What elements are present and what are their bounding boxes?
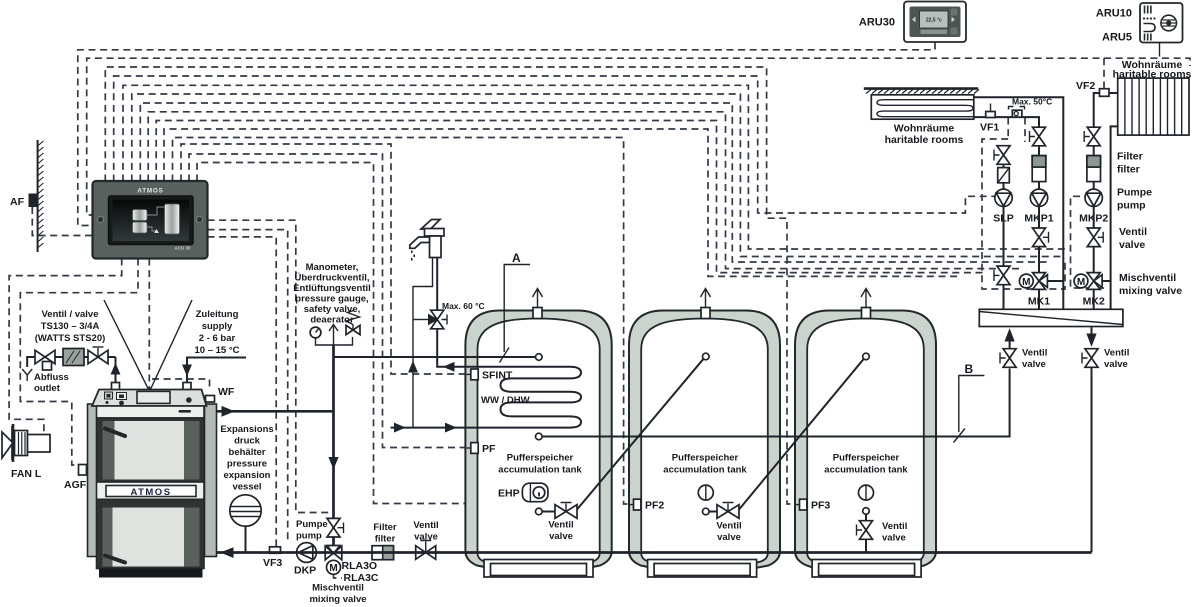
pipe to tank2 valve (709, 511, 717, 513)
pipe faucet hot (436, 258, 438, 313)
port tank1 mid w/ line to header (536, 369, 1010, 440)
marker B slash (954, 429, 966, 443)
pipe to tank1 valve (542, 511, 555, 513)
wire to WF sensor (152, 379, 210, 388)
pipe radiator supply w/ VF1 (974, 117, 1039, 127)
deaerator vent arrow (329, 325, 338, 346)
svg-text:pressure: pressure (227, 459, 267, 470)
svg-text:VF1: VF1 (980, 122, 999, 134)
svg-text:ARU5: ARU5 (1102, 32, 1132, 44)
boiler top buttons (105, 392, 113, 399)
valve tank2 bottom (717, 503, 739, 519)
arrow cold up (409, 362, 417, 372)
pump MKP1 (1030, 189, 1047, 206)
svg-text:ARU30: ARU30 (859, 17, 895, 29)
svg-text:Max. 60 °C: Max. 60 °C (442, 301, 485, 311)
svg-text:outlet: outlet (34, 383, 61, 394)
pipe MKP2 down (1093, 207, 1095, 272)
svg-text:PF2: PF2 (645, 500, 664, 512)
wire bus8 (148, 112, 1019, 269)
pump SLP (995, 189, 1012, 206)
pipe mixer riser w/ down arrow (329, 412, 338, 545)
valve below header right w/ down arrow (1082, 327, 1098, 553)
pipe SLP down (1003, 207, 1005, 310)
svg-text:Pumpe: Pumpe (1117, 187, 1152, 199)
pipe safety manifold (316, 337, 353, 345)
svg-text:AGF: AGF (64, 479, 87, 491)
sensor SFINT (467, 369, 479, 380)
pipe Zuleitung supply w/ down arrow (183, 358, 246, 384)
svg-text:accumulation tank: accumulation tank (663, 465, 747, 476)
valve tank1 bottom (555, 503, 577, 519)
svg-text:Wohnräume: Wohnräume (894, 123, 955, 135)
wire bus12 to SFINT (181, 144, 468, 374)
svg-text:ATMOS: ATMOS (137, 188, 163, 195)
wire panel-right to VF3 (208, 237, 277, 546)
svg-text:Pufferspeicher: Pufferspeicher (833, 453, 900, 464)
svg-text:Manometer,: Manometer, (306, 262, 359, 273)
pipe riser safety (332, 345, 335, 412)
wire bus3 to PF3 (105, 67, 797, 504)
sensor PF (467, 443, 479, 454)
wire bus10 (164, 129, 960, 276)
svg-text:mixing valve: mixing valve (1119, 285, 1182, 297)
sensor VF3 (270, 547, 281, 554)
wire panel-bottom to AGF (20, 259, 138, 466)
marker B bracket (959, 376, 985, 433)
pump DKP (297, 543, 317, 563)
svg-text:Zuleitung: Zuleitung (196, 309, 239, 320)
boiler upper door handle (105, 429, 125, 437)
wire bus5 to MKP2 box (123, 85, 1070, 249)
boiler base (99, 569, 203, 578)
svg-text:filter: filter (1117, 164, 1140, 176)
svg-text:AF: AF (10, 196, 25, 208)
svg-text:valve: valve (1119, 239, 1145, 251)
wire bus14 to EHP (197, 163, 521, 504)
radiator panel horizontal (871, 95, 974, 119)
port tank3 bottom circle (863, 508, 870, 515)
svg-text:expansion: expansion (224, 470, 271, 481)
svg-text:Mischventil: Mischventil (1119, 272, 1176, 284)
svg-text:ATMOS: ATMOS (130, 487, 171, 498)
svg-text:supply: supply (202, 321, 233, 332)
svg-text:M: M (329, 563, 337, 574)
valve above RLA3 (327, 518, 344, 537)
svg-text:valve: valve (414, 532, 438, 543)
svg-text:MK2: MK2 (1083, 296, 1105, 308)
boiler port left (112, 383, 120, 391)
sensor PF2 (629, 499, 641, 510)
wire bus13 to PF (189, 154, 468, 448)
boiler ATMOS band (97, 482, 205, 499)
pipe radiator return to MK1 (974, 97, 1064, 309)
pipe radiator2 return (1111, 126, 1118, 309)
sensor VF2 (1100, 89, 1110, 97)
svg-text:filter: filter (375, 534, 396, 545)
svg-text:RLA3O: RLA3O (342, 560, 378, 572)
mixing valve RLA3 (325, 546, 342, 575)
expansion vessel (230, 495, 261, 553)
svg-text:SFINT: SFINT (482, 370, 513, 382)
boiler upper door frame (97, 418, 205, 482)
valve below header left w/ up arrow (1000, 330, 1016, 368)
tank 3 base (812, 560, 921, 578)
svg-text:WF: WF (218, 386, 235, 398)
svg-text:Filter: Filter (373, 522, 397, 533)
filter MKP2 (1087, 146, 1101, 189)
marker A bracket (504, 265, 530, 353)
svg-text:10 – 15 °C: 10 – 15 °C (195, 345, 240, 356)
tank 1 top port w/ arrow (533, 289, 543, 319)
boiler top panel (92, 390, 207, 407)
svg-text:Pumpe: Pumpe (296, 519, 328, 530)
svg-text:deaerator: deaerator (310, 315, 354, 326)
wire panel-right to DKP (208, 230, 288, 540)
svg-text:pressure gauge,: pressure gauge, (295, 294, 368, 305)
funnel Abfluss (22, 369, 32, 381)
boiler display window (137, 391, 170, 403)
valve TS130 left (35, 350, 55, 370)
wire bus6 (132, 94, 1063, 257)
svg-text:Entlüftungsventil: Entlüftungsventil (293, 283, 371, 294)
room unit ARU30 (904, 2, 966, 43)
AGF sensor (79, 465, 87, 476)
pipe MKP1 down (1038, 207, 1040, 272)
boiler side panels (88, 404, 100, 557)
svg-text:Filter: Filter (1117, 151, 1143, 163)
svg-text:Ventil: Ventil (1119, 226, 1147, 238)
svg-text:Ventil: Ventil (413, 520, 438, 531)
svg-text:M: M (1077, 277, 1085, 288)
svg-text:MK1: MK1 (1028, 296, 1050, 308)
pointer V lines to boiler top (104, 300, 149, 390)
valve TS130 right (88, 347, 108, 364)
dashed box SLP MKP1 circuits (982, 139, 1065, 289)
symbol tank2 heater port (698, 485, 713, 500)
wire panel-bottom to FAN L (9, 259, 122, 435)
pump MKP2 (1085, 189, 1102, 206)
ceiling hatch (864, 89, 979, 94)
svg-text:FAN L: FAN L (11, 468, 42, 480)
pipe supply to tank1 (334, 356, 536, 358)
pipe SLP valve-check-pump (1003, 164, 1005, 189)
svg-text:PF3: PF3 (811, 500, 830, 512)
boiler lower door frame (97, 499, 205, 568)
column MKP1 valve (1030, 127, 1046, 146)
wire bus2 panel-left to VF2 (87, 58, 1104, 215)
sensor PF3 (795, 499, 807, 510)
tank 1 shell (465, 311, 611, 571)
tank 2 base (648, 560, 757, 578)
boiler port right (183, 383, 191, 391)
pipe radiator2 supply (1094, 93, 1118, 128)
wire Max50 to MK1 motor (1024, 118, 1026, 143)
wire AF sensor to panel (32, 207, 92, 236)
svg-text:mixing valve: mixing valve (309, 594, 366, 605)
svg-text:Überdruckventil,: Überdruckventil, (295, 273, 370, 284)
svg-text:valve: valve (1104, 359, 1128, 370)
tank 1 base (484, 560, 593, 578)
room unit ARU10/ARU5 (1140, 3, 1183, 43)
dashed hook RLA3 motor (334, 574, 343, 578)
svg-text:Abfluss: Abfluss (34, 372, 69, 383)
svg-text:22,5 °c: 22,5 °c (926, 18, 942, 24)
boiler top right knob (186, 397, 192, 403)
valve MKP2 lower (1087, 228, 1103, 247)
fan FAN L (2, 424, 50, 462)
svg-text:druck: druck (234, 436, 261, 447)
port tank1 bottom circle (536, 508, 543, 515)
valve MKP2 (1084, 127, 1100, 146)
boiler ATMOS plate (106, 486, 196, 497)
tank 2 top port w/ arrow (701, 289, 711, 319)
svg-text:A: A (512, 251, 521, 265)
svg-text:valve: valve (717, 532, 741, 543)
header hydraulic separator (979, 309, 1123, 326)
svg-text:M: M (1022, 277, 1030, 288)
port tank2 top circle (703, 353, 710, 360)
sensor VF1 (986, 104, 996, 118)
pipe faucet cold branch (413, 258, 433, 428)
svg-text:Pufferspeicher: Pufferspeicher (507, 453, 574, 464)
svg-text:valve: valve (549, 531, 573, 542)
wall (38, 140, 44, 252)
svg-text:Ventil / valve: Ventil / valve (41, 309, 98, 320)
pipe diagonal tank1 to tank2 (577, 359, 703, 509)
svg-text:2 - 6 bar: 2 - 6 bar (199, 333, 236, 344)
check valve SLP (998, 168, 1010, 183)
filter MKP1 (1032, 146, 1046, 189)
svg-text:Ventil: Ventil (882, 521, 907, 532)
wire VF1 to control box (1007, 118, 1009, 140)
wire bus2 branch to radiator right (1104, 58, 1190, 66)
wire bus11 to PF2 (173, 138, 631, 505)
svg-text:accumulation tank: accumulation tank (498, 465, 582, 476)
svg-text:Expansions: Expansions (220, 424, 273, 435)
valve MKP1 lower (1033, 228, 1049, 247)
svg-text:EHP: EHP (498, 488, 520, 500)
wire bus7 (140, 103, 1050, 262)
port tank2 bottom circle (703, 508, 710, 515)
tank 3 shell (795, 311, 936, 571)
svg-text:ARU10: ARU10 (1096, 8, 1132, 20)
wire ARU to radiator2 (1159, 43, 1161, 57)
boiler vent slot (179, 410, 192, 413)
svg-text:haritable rooms: haritable rooms (1113, 69, 1192, 81)
column SLP (994, 146, 1010, 165)
svg-text:accumulation tank: accumulation tank (824, 465, 908, 476)
tank 2 shell (629, 311, 780, 571)
svg-text:pump: pump (1117, 200, 1146, 212)
safety valve (346, 311, 360, 335)
tank 3 top port w/ arrow (861, 289, 871, 319)
svg-text:behälter: behälter (229, 447, 266, 458)
svg-text:Ventil: Ventil (1022, 348, 1047, 359)
svg-text:B: B (965, 362, 974, 376)
port circle tank1 top feed (536, 354, 543, 361)
svg-text:VF3: VF3 (263, 557, 282, 569)
valve mixing Max60 (413, 310, 447, 329)
pipe TS130 line (27, 357, 115, 367)
valve tank3 bottom (857, 514, 873, 552)
pipe boiler to TS130 w/ up arrow (111, 357, 119, 383)
heater EHP (522, 483, 548, 502)
symbol tank3 heater port (859, 485, 874, 500)
pipe boiler supply (217, 407, 334, 416)
wire panel-right to RLA3 motor (208, 220, 333, 512)
marker A slash (500, 348, 510, 363)
faucet (410, 220, 444, 261)
svg-text:vessel: vessel (232, 482, 261, 493)
svg-text:valve: valve (882, 533, 906, 544)
filter return (372, 546, 394, 560)
svg-text:Pufferspeicher: Pufferspeicher (672, 453, 739, 464)
svg-text:pump: pump (296, 531, 322, 542)
filter TS130 (63, 349, 84, 366)
boiler lower door handle (105, 556, 125, 563)
coil WW/DHW tank1 (499, 367, 581, 428)
radiator vertical top right (1118, 78, 1189, 135)
port tank3 top circle (863, 353, 870, 360)
wire bus4 to SLP (114, 76, 995, 213)
WF sensor (206, 396, 215, 403)
svg-text:TS130 – 3/4A: TS130 – 3/4A (41, 321, 100, 332)
svg-text:(WATTS STS20): (WATTS STS20) (35, 333, 106, 344)
svg-text:WW / DHW: WW / DHW (481, 395, 530, 406)
wire panel-bottom to boiler sensor (148, 259, 150, 389)
svg-text:safety valve,: safety valve, (304, 304, 361, 315)
pipe diagonal tank2 to tank3 (739, 359, 864, 509)
svg-text:ACD 30: ACD 30 (174, 246, 191, 251)
wire bus9 (156, 121, 985, 273)
svg-text:Mischventil: Mischventil (312, 583, 364, 594)
svg-text:haritable rooms: haritable rooms (885, 134, 964, 146)
svg-text:Ventil: Ventil (1104, 348, 1129, 359)
pipe boiler return (217, 548, 1092, 557)
mixing valve MK1 (1019, 273, 1063, 310)
svg-text:Ventil: Ventil (548, 520, 573, 531)
AF sensor (29, 194, 38, 208)
dashed box MKP2 circuit (1071, 196, 1107, 288)
control panel ACD30 (93, 181, 208, 259)
wire bus1 panel-left to ARU30 (78, 43, 935, 226)
svg-text:VF2: VF2 (1076, 80, 1095, 92)
valve SLP lower (994, 266, 1010, 285)
svg-text:DKP: DKP (294, 565, 316, 577)
svg-text:valve: valve (1022, 359, 1046, 370)
valve return (416, 541, 436, 560)
pipe Max60 to coil hot out w/ arrow (437, 329, 499, 371)
svg-text:Ventil: Ventil (716, 521, 741, 532)
svg-text:PF: PF (482, 443, 496, 455)
pipe cold feed to coil w/ arrows (391, 423, 501, 431)
gauge manometer (310, 327, 321, 338)
mixing valve MK2 (1074, 273, 1111, 310)
boiler upper band (97, 406, 205, 418)
box Max50 thermostat (1009, 107, 1025, 118)
